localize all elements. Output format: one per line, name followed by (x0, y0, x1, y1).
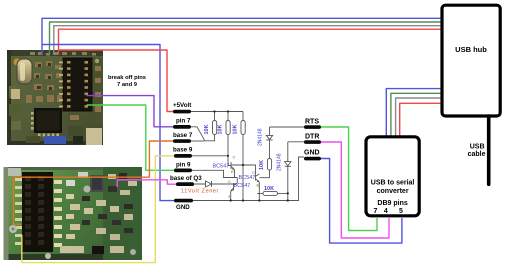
svg-text:4: 4 (384, 208, 388, 215)
svg-text:BC547: BC547 (213, 164, 230, 170)
wire D1 to R4 (269, 140, 271, 159)
svg-text:C: C (233, 155, 236, 160)
wire R2 top (227, 112, 229, 121)
svg-text:10K: 10K (259, 160, 265, 170)
wire R4 bottom to T2 collector (259, 170, 269, 178)
USB hub box (442, 5, 500, 116)
wire T3 collector (236, 178, 238, 184)
resistor R3 10K (233, 121, 246, 135)
wire diode D1 top (269, 127, 271, 135)
diode D1 2N4148 (258, 128, 273, 146)
svg-text:2N4148: 2N4148 (258, 128, 264, 146)
wire R1 top (214, 112, 216, 121)
wire T2 emitter to rail (258, 182, 260, 200)
svg-text:E: E (229, 194, 232, 199)
terminal base 9 (173, 147, 193, 158)
svg-text:cable: cable (468, 151, 486, 158)
svg-text:converter: converter (377, 188, 409, 195)
svg-text:C: C (252, 170, 255, 175)
wire pin 9 (green, from photo1 header) (87, 105, 174, 170)
svg-text:DB9 pins: DB9 pins (377, 200, 407, 207)
svg-text:+5Volt: +5Volt (173, 102, 191, 109)
transistor Q1 BC547 (213, 162, 235, 178)
svg-text:base of Q3: base of Q3 (170, 175, 202, 182)
resistor R1 10K (204, 121, 217, 135)
switch pin7-base7 (191, 127, 205, 140)
svg-text:7: 7 (374, 208, 378, 215)
note: break off pins 7 and 9 (108, 75, 146, 88)
wire DTR lead (288, 141, 304, 143)
terminal GND left (174, 199, 193, 211)
wire R3 bottom to ground rail (242, 135, 244, 201)
wire camera USB D- (green, photo1 to hub) (50, 22, 447, 55)
pin letter marks (228, 155, 260, 200)
wire base 7 (orange, from photo2 header) (14, 141, 174, 224)
svg-text:base 9: base 9 (173, 147, 193, 154)
wire D2 to rail (287, 166, 289, 200)
wire GND (blue, to DB9 pin 5) (321, 159, 402, 244)
wire +5V rail (191, 111, 243, 113)
terminal DTR (304, 134, 321, 144)
svg-text:2N4148: 2N4148 (277, 153, 283, 171)
svg-text:5: 5 (399, 208, 403, 215)
svg-text:10K: 10K (264, 186, 274, 192)
wire base7 lead (191, 140, 205, 142)
wire ground rail (193, 157, 304, 201)
svg-text:11Volt Zener: 11Volt Zener (181, 189, 219, 195)
svg-text:BC547: BC547 (239, 175, 256, 181)
wire RTS (green, to DB9 pin 7) (321, 127, 377, 231)
USB cable (468, 116, 489, 184)
wire T1 collector node to T2 base (232, 165, 256, 174)
svg-text:RTS: RTS (305, 119, 319, 126)
wire base9 lead (192, 155, 228, 157)
camera PCB photo 1 (7, 50, 103, 145)
resistor R2 10K (218, 121, 231, 135)
svg-text:GND: GND (176, 204, 190, 211)
terminal pin 9 (174, 162, 192, 173)
svg-text:GND: GND (304, 150, 320, 157)
wire R5 leads (257, 192, 288, 194)
svg-text:7 and 9: 7 and 9 (117, 82, 138, 88)
svg-text:10K: 10K (204, 124, 210, 134)
resistor R4 10K (259, 159, 272, 171)
wire R1 bottom to base7 node (205, 135, 215, 141)
USB to serial converter box (366, 137, 419, 216)
wire base 9 (yellow, from photo2 header) (22, 156, 174, 263)
wire pin 7 (purple, from photo1 header) (87, 96, 173, 127)
svg-text:pin 9: pin 9 (176, 162, 191, 169)
junction dots (213, 110, 289, 201)
svg-text:10K: 10K (218, 124, 224, 134)
terminal RTS (304, 119, 321, 129)
wire camera USB +5V (red, photo1 to hub) (59, 29, 447, 55)
svg-text:USB to serial: USB to serial (371, 180, 415, 187)
wire converter USB D- (green, to hub) (391, 93, 446, 136)
svg-text:10K: 10K (233, 124, 239, 134)
svg-text:USB hub: USB hub (455, 45, 487, 54)
wire +5V branch (red, to schematic +5Volt) (59, 50, 174, 112)
zener diode 11V (181, 181, 219, 195)
svg-text:DTR: DTR (305, 134, 319, 141)
svg-text:break off pins: break off pins (108, 75, 146, 81)
wire camera USB GND (blue, photo1 to hub) (42, 18, 446, 55)
terminal base 7 (173, 132, 193, 143)
transistor Q3 BC547 (231, 183, 251, 192)
svg-text:USB: USB (470, 144, 485, 151)
camera PCB photo 2 (4, 167, 143, 260)
wire converter USB GND (red, to hub) (400, 103, 446, 136)
wire base of Q3 (pink, from photo2) (117, 180, 176, 187)
terminal pin 7 (173, 118, 191, 129)
wire RTS lead (270, 126, 305, 128)
svg-text:base 7: base 7 (173, 132, 193, 139)
terminal +5Volt (173, 102, 191, 113)
wire T3 emitter to rail (230, 192, 232, 201)
wire converter USB D+ (gray, to hub) (396, 98, 446, 136)
wire R2 bottom to T1 base (228, 135, 231, 166)
resistor R5 10K (263, 186, 278, 195)
terminal base of Q3 (170, 175, 202, 186)
terminal GND right (304, 150, 321, 161)
wire GND branch (blue, to schematic GND) (42, 45, 174, 201)
wire converter USB +5V (blue, to hub) (386, 89, 446, 136)
wire R3 top (242, 112, 244, 121)
wire diode D2 top (287, 142, 289, 162)
diode D2 2N4148 (277, 153, 292, 171)
wire camera USB D+ (gray, photo1 to hub) (54, 26, 446, 55)
svg-text:pin 7: pin 7 (176, 118, 191, 125)
wire zener lead (194, 183, 234, 185)
svg-text:E: E (231, 169, 234, 174)
svg-text:BC547: BC547 (234, 183, 251, 189)
wire pin9 lead to T1 emitter (192, 170, 237, 177)
svg-text:E: E (257, 183, 260, 188)
svg-text:C: C (228, 179, 231, 184)
wire DTR (pink, to DB9 pin 4) (321, 142, 389, 238)
transistor Q2 BC547 (239, 174, 260, 182)
